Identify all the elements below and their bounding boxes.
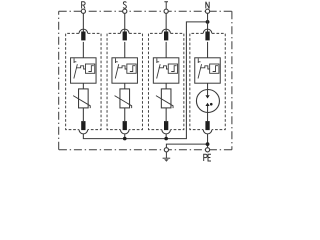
junction T on row1 (164, 137, 168, 141)
earth terminal circle (164, 148, 168, 152)
label N (206, 2, 209, 9)
earth bus row2 to earth electrode (166, 144, 207, 148)
label S (123, 2, 126, 8)
branch N (190, 9, 225, 134)
outer device frame (dash-dot) (59, 11, 232, 150)
wire S bottom stub (124, 134, 126, 139)
label R (82, 2, 86, 9)
branch T (148, 9, 183, 134)
varistor S (115, 83, 132, 122)
N-PE spark gap (196, 83, 219, 121)
branch S (107, 9, 142, 134)
varistor R (73, 83, 90, 122)
junction N top (206, 20, 210, 24)
earth bus row1: R,S,T varistor bus up to N junction (83, 22, 207, 139)
wire N branch bottom to PE (207, 134, 209, 148)
earth symbol (163, 152, 171, 162)
label T (164, 2, 168, 9)
branch R (66, 9, 101, 134)
PE terminal circle (205, 148, 209, 152)
label PE (204, 154, 211, 161)
junction S on row1 (123, 137, 127, 141)
wire T bottom stub (165, 134, 167, 139)
junction N bottom (206, 142, 210, 146)
varistor T (156, 83, 173, 122)
